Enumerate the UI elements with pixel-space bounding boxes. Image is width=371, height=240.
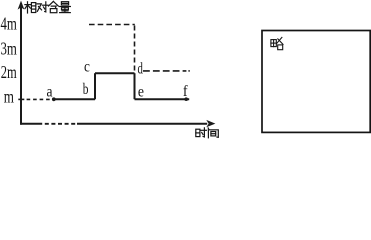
riser d-e xyxy=(134,73,136,99)
box label glyph 略 xyxy=(271,37,283,49)
svg-text:2m: 2m xyxy=(1,62,17,82)
x-axis dashed break segment xyxy=(45,123,76,125)
y-axis title glyph 量 xyxy=(59,2,70,13)
svg-text:4m: 4m xyxy=(1,14,17,34)
x-axis solid left segment xyxy=(20,123,42,125)
svg-text:3m: 3m xyxy=(1,39,17,59)
riser b-c xyxy=(94,73,96,99)
svg-text:f: f xyxy=(183,83,188,100)
y-axis xyxy=(20,3,22,125)
y-axis title glyph 相 xyxy=(25,2,36,13)
svg-text:b: b xyxy=(83,81,89,98)
svg-text:m: m xyxy=(4,87,14,107)
y-axis title glyph 含 xyxy=(49,1,59,12)
dashed guide at 4m level xyxy=(89,24,135,26)
svg-text:e: e xyxy=(138,83,144,100)
curve a-b xyxy=(54,98,95,100)
y-axis arrowhead xyxy=(18,1,25,10)
svg-text:c: c xyxy=(84,59,90,76)
segment c-d xyxy=(95,72,135,74)
y-axis title glyph 对 xyxy=(37,2,48,12)
point a dot xyxy=(52,97,56,101)
dashed guide at m level to point a xyxy=(27,98,53,100)
segment e-f xyxy=(135,98,190,100)
end dot of 2m dashed guide xyxy=(188,70,189,72)
x-axis arrowhead xyxy=(206,120,215,127)
x-axis title glyph 间 xyxy=(208,128,218,138)
dashed vertical guide down to d xyxy=(134,26,136,72)
x-axis solid right segment xyxy=(77,123,207,125)
x-axis title glyph 时 xyxy=(196,128,207,137)
dashed guide at 2m level right of d xyxy=(143,70,186,72)
tick at m level on y-axis xyxy=(18,98,24,100)
point f dot xyxy=(184,97,188,101)
answer box xyxy=(262,31,370,133)
svg-text:d: d xyxy=(138,61,143,78)
svg-text:a: a xyxy=(47,84,53,101)
